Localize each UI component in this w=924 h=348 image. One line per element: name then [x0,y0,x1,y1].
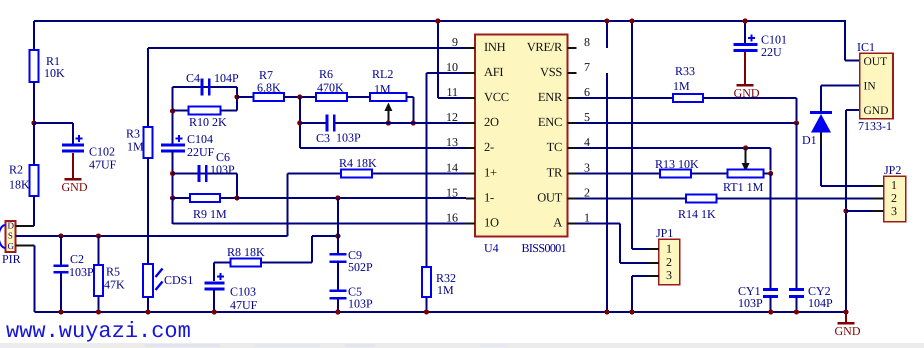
svg-text:VCC: VCC [484,90,509,104]
svg-text:GND: GND [835,324,861,338]
svg-text:16: 16 [446,211,458,225]
svg-text:GND: GND [734,86,760,100]
svg-text:ENC: ENC [538,115,562,129]
svg-text:8: 8 [584,35,590,49]
svg-text:7133-1: 7133-1 [858,119,892,133]
svg-text:12: 12 [446,110,458,124]
svg-text:22U: 22U [761,45,782,59]
svg-text:103P: 103P [738,296,763,310]
svg-text:1M: 1M [127,140,144,154]
svg-text:VRE/R: VRE/R [527,40,563,54]
svg-text:OUT: OUT [537,191,562,205]
svg-text:GND: GND [864,105,889,117]
svg-text:C104: C104 [187,132,213,146]
svg-text:C2: C2 [70,252,84,266]
svg-text:103P: 103P [210,163,235,177]
svg-text:C4: C4 [186,71,200,85]
svg-text:RL2: RL2 [372,67,393,81]
svg-text:A: A [553,216,562,230]
svg-text:104P: 104P [808,296,833,310]
svg-text:ENR: ENR [538,90,563,104]
svg-text:2: 2 [666,255,672,269]
svg-text:PIR: PIR [2,252,21,266]
svg-text:VSS: VSS [540,65,562,79]
svg-text:10: 10 [446,60,458,74]
svg-text:RT1 1M: RT1 1M [723,180,764,194]
svg-text:R5: R5 [106,265,120,279]
svg-text:R9 1M: R9 1M [193,207,227,221]
svg-text:10K: 10K [44,66,65,80]
svg-text:1M: 1M [673,79,690,93]
svg-text:470K: 470K [317,81,344,95]
svg-text:2-: 2- [484,140,494,154]
svg-text:2O: 2O [484,115,499,129]
svg-text:1M: 1M [374,82,391,96]
svg-text:103P: 103P [336,131,361,145]
svg-text:GND: GND [62,180,88,194]
svg-text:14: 14 [446,161,458,175]
svg-text:R13 10K: R13 10K [655,157,699,171]
svg-text:IN: IN [864,80,877,92]
svg-text:C3: C3 [316,131,330,145]
svg-text:INH: INH [484,40,506,54]
svg-text:R2: R2 [9,163,23,177]
svg-text:47K: 47K [104,278,125,292]
svg-text:502P: 502P [348,260,373,274]
svg-text:S: S [8,231,13,241]
svg-text:104P: 104P [214,71,239,85]
svg-text:AFI: AFI [484,65,503,79]
svg-text:18K: 18K [9,178,30,192]
svg-text:47UF: 47UF [230,298,258,312]
svg-text:3: 3 [666,268,672,282]
svg-text:9: 9 [452,35,458,49]
svg-text:R8 18K: R8 18K [227,245,265,259]
svg-text:1M: 1M [437,283,454,297]
svg-text:R4 18K: R4 18K [339,156,377,170]
svg-text:7: 7 [584,60,590,74]
svg-text:13: 13 [446,135,458,149]
svg-text:D1: D1 [802,133,817,147]
svg-text:R10 2K: R10 2K [189,115,227,129]
svg-text:6.8K: 6.8K [257,81,281,95]
svg-text:U4: U4 [484,241,499,255]
svg-text:BISS0001: BISS0001 [522,241,567,255]
svg-text:IC1: IC1 [857,40,875,54]
svg-text:TC: TC [547,140,562,154]
svg-text:1: 1 [666,242,672,256]
svg-text:22UF: 22UF [187,145,215,159]
svg-text:C103: C103 [230,285,256,299]
svg-text:103P: 103P [348,297,373,311]
svg-text:R6: R6 [319,67,333,81]
svg-text:G: G [8,241,15,251]
svg-text:15: 15 [446,186,458,200]
svg-text:www.wuyazi.com: www.wuyazi.com [6,319,191,344]
svg-text:2: 2 [891,191,897,205]
svg-text:TR: TR [547,166,563,180]
svg-text:11: 11 [446,85,458,99]
svg-text:JP2: JP2 [884,163,901,177]
svg-text:1-: 1- [484,191,494,205]
svg-text:CDS1: CDS1 [164,273,193,287]
svg-text:R3: R3 [126,127,140,141]
svg-text:1O: 1O [484,216,499,230]
svg-text:R14 1K: R14 1K [678,207,716,221]
svg-text:3: 3 [891,204,897,218]
svg-text:JP1: JP1 [656,226,673,240]
svg-text:C102: C102 [89,145,115,159]
svg-text:D: D [8,221,15,231]
svg-text:47UF: 47UF [89,158,117,172]
svg-text:OUT: OUT [864,56,888,68]
svg-text:R33: R33 [675,64,695,78]
svg-text:1+: 1+ [484,166,497,180]
svg-text:103P: 103P [69,265,94,279]
